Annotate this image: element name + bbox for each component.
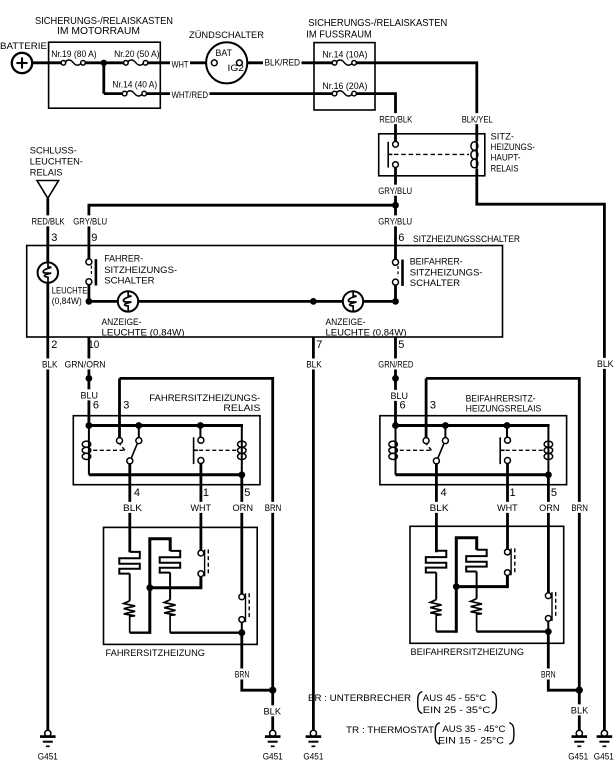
svg-text:WHT: WHT (191, 502, 212, 513)
svg-text:BLK: BLK (123, 502, 143, 513)
svg-text:LEUCHTE (0,84W): LEUCHTE (0,84W) (326, 327, 407, 338)
wire ER to node X (H1 FAHRERSITZHEIZUNG) (150, 577, 201, 588)
svg-text:IG2: IG2 (228, 63, 245, 73)
wire GRY/BLU bus to driver switch pin 9 (89, 205, 396, 259)
wire BRN passenger heater to ground node (548, 632, 579, 691)
svg-text:BEIFAHRER-: BEIFAHRER- (410, 256, 463, 267)
ignition switch S1 ZUENDSCHALTER (206, 42, 247, 83)
svg-text:4: 4 (441, 487, 447, 499)
svg-text:BEIFAHRERSITZHEIZUNG: BEIFAHRERSITZHEIZUNG (411, 647, 525, 658)
relay K3 BEIFAHRERSITZ-HEIZUNGSRELAIS coil 2 (547, 426, 549, 475)
relay K1 actuation dashed link (394, 153, 469, 155)
junction TR/BRN node (H2 BEIFAHRERSITZHEIZUNG) (545, 628, 552, 635)
relay K3 BEIFAHRERSITZ-HEIZUNGSRELAIS switch 2 (506, 426, 508, 438)
svg-text:RELAIS: RELAIS (491, 164, 519, 175)
wire main relay coil to right BLK ground run (477, 169, 605, 730)
passenger indicator bulb ANZEIGE-LEUCHTE (0,84W) (343, 291, 363, 311)
svg-text:RED/BLK: RED/BLK (379, 113, 413, 124)
junction pin 7 node (310, 298, 317, 305)
wire label BLU (passenger) (389, 390, 410, 401)
svg-text:LEUCHTE (0,84W): LEUCHTE (0,84W) (102, 327, 185, 338)
switch box SITZHEIZUNGSSCHALTER (27, 246, 503, 338)
svg-text:IM MOTORRAUM: IM MOTORRAUM (57, 26, 140, 37)
relay K2 FAHRERSITZHEIZUNGS-RELAIS bottom rail (89, 473, 242, 476)
junction node X (H1 FAHRERSITZHEIZUNG) (146, 584, 153, 591)
wire element2 bottom rail (H2 BEIFAHRERSITZHEIZUNG) (477, 630, 549, 632)
svg-text:ORN: ORN (539, 502, 560, 513)
wire K2 FAHRERSITZHEIZUNGS-RELAIS switch2 to pin 1 (199, 464, 202, 551)
relay K1 contact (387, 142, 389, 168)
svg-text:Nr.14 (40 A): Nr.14 (40 A) (112, 79, 157, 89)
svg-text:BAT: BAT (216, 48, 233, 58)
svg-text:HEIZUNGS-: HEIZUNGS- (491, 142, 535, 153)
svg-text:(0,84W): (0,84W) (52, 296, 82, 306)
wire label ORN (passenger pin5) (538, 502, 562, 513)
wire label BRN (driver) (263, 502, 283, 513)
relay K3 BEIFAHRERSITZ-HEIZUNGSRELAIS changeover switch (444, 427, 446, 438)
wire fuse20 out to ignition BAT terminal (148, 61, 212, 64)
svg-text:3: 3 (51, 232, 57, 244)
svg-text:6: 6 (93, 400, 99, 412)
junction K3 BEIFAHRERSITZ-HEIZUNGSRELAIS rail/switch2 (504, 422, 511, 429)
svg-text:BATTERIE: BATTERIE (0, 41, 47, 52)
fuse F20 Nr.20 (50 A) (128, 60, 144, 65)
node X feed (H1 FAHRERSITZHEIZUNG) (150, 539, 170, 634)
svg-text:BLK: BLK (306, 359, 322, 370)
svg-text:GRN/RED: GRN/RED (378, 359, 413, 370)
ground G451 (main relay BLK) (603, 730, 606, 731)
relay K3 BEIFAHRERSITZ-HEIZUNGSRELAIS coil 1 (395, 427, 397, 475)
svg-text:SCHALTER: SCHALTER (410, 278, 460, 289)
svg-text:BLK/RED: BLK/RED (265, 57, 301, 68)
svg-text:BRN: BRN (571, 502, 588, 513)
wire label GRY/BLU (below node) (377, 215, 414, 226)
svg-text:Nr.14 (10A): Nr.14 (10A) (322, 49, 367, 59)
junction driver BRN/BLK ground node (269, 687, 276, 694)
wire K3 BEIFAHRERSITZ-HEIZUNGSRELAIS pivot to pin 4 (435, 464, 438, 552)
svg-text:3: 3 (430, 400, 436, 412)
relay box K3 BEIFAHRERSITZ-HEIZUNGSRELAIS (380, 416, 567, 485)
svg-text:GRY/BLU: GRY/BLU (73, 216, 107, 227)
svg-text:AUS 35 - 45°C: AUS 35 - 45°C (442, 724, 505, 735)
junction node X (H2 BEIFAHRERSITZHEIZUNG) (453, 583, 460, 590)
svg-text:SITZHEIZUNGS-: SITZHEIZUNGS- (104, 265, 177, 276)
junction pin 5 node (392, 298, 399, 305)
wire pin3 to illumination bulb (46, 246, 49, 338)
relay K2 FAHRERSITZHEIZUNGS-RELAIS switch 2 (199, 426, 201, 438)
svg-text:ER : UNTERBRECHER: ER : UNTERBRECHER (308, 693, 411, 704)
svg-text:WHT/RED: WHT/RED (172, 89, 209, 100)
junction GRY/BLU node (392, 202, 399, 209)
svg-text:FAHRER-: FAHRER- (104, 254, 143, 265)
svg-text:RELAIS: RELAIS (223, 403, 260, 414)
junction pin 10 node (86, 298, 93, 305)
wire label BLK/YEL (460, 113, 494, 124)
wire BLK/YEL fuse14-10A out to main relay coil (356, 63, 477, 141)
svg-text:TR : THERMOSTAT: TR : THERMOSTAT (346, 725, 434, 736)
svg-text:SITZ-: SITZ- (491, 132, 515, 143)
junction K2 FAHRERSITZHEIZUNGS-RELAIS bottom rail/pin5 (238, 471, 245, 478)
wire element2 bottom rail (H1 FAHRERSITZHEIZUNG) (170, 632, 242, 634)
resistor thermistor 1 (H2 BEIFAHRERSITZHEIZUNG) (435, 573, 437, 600)
fuse F16 Nr.16 (20A) (336, 91, 352, 96)
svg-text:G451: G451 (263, 752, 283, 762)
svg-text:ANZEIGE-: ANZEIGE- (102, 317, 142, 328)
wire label GRY/BLU (left) (72, 215, 109, 226)
driver indicator bulb ANZEIGE-LEUCHTE (0,84W) (118, 291, 138, 311)
wire GRN/RED-BLU pin5 to passenger relay pin6 (394, 337, 397, 426)
wire BLK/RED ignition IG2 to footwell fuse14-10A (242, 61, 332, 64)
wire RED/BLK tail light relay to switch pin 3 (46, 198, 49, 245)
svg-text:SCHLUSS-: SCHLUSS- (30, 145, 77, 156)
svg-text:EIN 15 - 25°C: EIN 15 - 25°C (438, 736, 504, 747)
wire label RED/BLK (378, 113, 414, 124)
wire element1 bottom rail (H2 BEIFAHRERSITZHEIZUNG) (436, 630, 456, 632)
relay K3 BEIFAHRERSITZ-HEIZUNGSRELAIS top rail (396, 424, 550, 427)
svg-text:6: 6 (400, 400, 406, 412)
svg-text:FAHRERSITZHEIZUNG: FAHRERSITZHEIZUNG (106, 648, 206, 659)
fuse F19 Nr.19 (80 A) (65, 60, 81, 65)
heating element 2 (H1 FAHRERSITZHEIZUNG) (160, 551, 181, 573)
ground G451 (pin7) (312, 730, 315, 731)
svg-text:G451: G451 (38, 752, 58, 762)
svg-text:ANZEIGE-: ANZEIGE- (326, 317, 366, 328)
svg-text:2: 2 (51, 339, 57, 351)
ground G451 (passenger BRN) (578, 730, 581, 731)
svg-text:5: 5 (244, 487, 250, 499)
wire label WHT (driver pin1) (189, 502, 213, 513)
wire BLU/pin3 riser driver relay (118, 378, 121, 437)
svg-text:SITZHEIZUNGSSCHALTER: SITZHEIZUNGSSCHALTER (413, 234, 520, 245)
thermostat switch TR (H1 FAHRERSITZHEIZUNG) (239, 594, 245, 600)
wire label ORN (driver pin5) (231, 502, 255, 513)
svg-text:GRY/BLU: GRY/BLU (378, 216, 412, 227)
breaker switch ER (H1 FAHRERSITZHEIZUNG) (198, 550, 204, 556)
wire label BLK (passenger pin4) (428, 502, 450, 513)
svg-text:G451: G451 (568, 752, 588, 762)
wire K3 BEIFAHRERSITZ-HEIZUNGSRELAIS switch2 to pin 1 (506, 464, 509, 551)
wire BLK driver ground node to G451 (271, 690, 274, 731)
relay box K2 FAHRERSITZHEIZUNGS-RELAIS (73, 416, 260, 485)
svg-text:BLK: BLK (597, 358, 614, 369)
driver seat heater switch S2 FAHRER-SITZHEIZUNGS-SCHALTER (86, 259, 92, 265)
wire GRY/BLU main relay contact down to switch pin 6 (394, 168, 397, 246)
heating element 1 (H2 BEIFAHRERSITZHEIZUNG) (426, 551, 447, 573)
connector junction driver BLU (86, 375, 93, 382)
junction K3 BEIFAHRERSITZ-HEIZUNGSRELAIS bottom rail/pin5 (545, 471, 552, 478)
wire label GRY/BLU (above node) (377, 185, 414, 196)
fuse/relay box engine compartment SICHERUNGS-/RELAISKASTEN IM MOTORRAUM (49, 42, 161, 108)
junction K2 FAHRERSITZHEIZUNGS-RELAIS rail/coil1 (86, 422, 93, 429)
wire label WHT/RED (170, 89, 210, 100)
wire label BLK (pin2) (41, 358, 60, 369)
wire label BRN (passenger heater) (540, 668, 558, 679)
battery B1 BATTERIE (12, 53, 32, 73)
node X feed (H2 BEIFAHRERSITZHEIZUNG) (456, 538, 476, 633)
heating element 1 (H1 FAHRERSITZHEIZUNG) (119, 552, 140, 574)
svg-text:9: 9 (91, 232, 97, 244)
fuse/relay box footwell SICHERUNGS-/RELAISKASTEN IM FUSSRAUM (314, 43, 375, 110)
breaker switch ER (H2 BEIFAHRERSITZHEIZUNG) (505, 549, 511, 555)
junction K2 FAHRERSITZHEIZUNGS-RELAIS rail/switch2 (197, 422, 204, 429)
junction node fuse19/fuse20/fuse14 tap (101, 60, 107, 66)
svg-text:3: 3 (123, 400, 129, 412)
svg-text:SCHALTER: SCHALTER (104, 275, 154, 286)
heater box H1 FAHRERSITZHEIZUNG (104, 527, 258, 644)
wire label GRN/ORN (63, 358, 107, 369)
label (0,84W) (50, 295, 83, 305)
wire label BLK (driver pin4) (122, 502, 144, 513)
wire BLK passenger ground node to G451 (578, 690, 581, 731)
svg-text:1: 1 (510, 487, 516, 499)
svg-text:Nr.20 (50 A): Nr.20 (50 A) (114, 49, 159, 59)
svg-text:LEUCHTEN-: LEUCHTEN- (30, 156, 83, 167)
svg-text:GRN/ORN: GRN/ORN (65, 359, 106, 370)
wire label BLK (pin7) (305, 358, 324, 369)
svg-text:BRN: BRN (265, 502, 282, 513)
svg-text:Nr.19 (80 A): Nr.19 (80 A) (51, 49, 96, 59)
wire ER to node X (H2 BEIFAHRERSITZHEIZUNG) (456, 576, 507, 587)
ground G451 (pin2) (46, 730, 49, 731)
wire K2 FAHRERSITZHEIZUNGS-RELAIS pin 5 ORN to thermostat (240, 475, 243, 594)
relay K1 SITZ-HEIZUNGS-HAUPT-RELAIS box (379, 134, 485, 176)
svg-text:ZÜNDSCHALTER: ZÜNDSCHALTER (189, 30, 264, 41)
wire BLK pin2 to ground G451 (46, 337, 49, 730)
heating element 2 (H2 BEIFAHRERSITZHEIZUNG) (466, 550, 487, 572)
svg-text:BLK: BLK (430, 502, 450, 513)
svg-text:WHT: WHT (172, 58, 189, 69)
wire K2 FAHRERSITZHEIZUNGS-RELAIS pivot to pin 4 (128, 464, 131, 552)
connector junction passenger BLU (392, 375, 399, 382)
svg-text:Nr.16 (20A): Nr.16 (20A) (322, 81, 367, 91)
wire label BLK (driver ground) (262, 705, 283, 716)
legend bracket close ER (492, 692, 497, 714)
svg-text:BLK: BLK (571, 705, 589, 716)
relay K2 FAHRERSITZHEIZUNGS-RELAIS top rail (89, 424, 243, 427)
wire label GRN/RED (377, 358, 415, 369)
junction passenger BRN/BLK ground node (576, 687, 583, 694)
svg-text:AUS 45 - 55°C: AUS 45 - 55°C (423, 693, 486, 704)
junction K3 BEIFAHRERSITZ-HEIZUNGSRELAIS rail/contact (442, 422, 449, 429)
svg-text:GRY/BLU: GRY/BLU (378, 185, 412, 196)
wire BRN driver heater to ground node (242, 633, 273, 691)
wire passenger pin3 run to BRN drop (426, 378, 579, 690)
wire WHT/RED fuse14-40A out to fuse16 footwell (146, 92, 332, 95)
svg-text:EIN 25 - 35°C: EIN 25 - 35°C (423, 705, 490, 716)
svg-text:BLK: BLK (42, 359, 58, 370)
wire BLK pin7 to ground G451 (312, 337, 315, 730)
wire tap down to fuse14-40A (102, 63, 105, 94)
wire label BRN (driver heater) (233, 668, 251, 679)
indicator bus wire in switch box (89, 300, 396, 303)
connector arrow from tail light relay (37, 181, 59, 199)
wire label RED/BLK (left) (30, 215, 66, 226)
svg-text:1: 1 (203, 487, 209, 499)
wire label BLU (driver) (79, 389, 100, 400)
svg-text:RELAIS: RELAIS (30, 168, 63, 179)
svg-text:ORN: ORN (233, 502, 254, 513)
svg-text:G451: G451 (303, 752, 323, 762)
svg-text:SICHERUNGS-/RELAISKASTEN: SICHERUNGS-/RELAISKASTEN (308, 18, 447, 29)
legend bracket open TR (435, 723, 440, 745)
wire RED/BLK fuse16 out to main relay contact (356, 94, 395, 142)
legend bracket close TR (509, 723, 514, 745)
resistor thermistor 2 (H1 FAHRERSITZHEIZUNG) (169, 573, 171, 600)
svg-text:IM FUSSRAUM: IM FUSSRAUM (306, 29, 372, 40)
resistor thermistor 2 (H2 BEIFAHRERSITZHEIZUNG) (476, 572, 478, 599)
relay K2 FAHRERSITZHEIZUNGS-RELAIS coil 2 (241, 426, 243, 475)
svg-text:BLK: BLK (264, 706, 282, 717)
fuse F14-40 Nr.14 (40 A) (127, 91, 143, 96)
wire K3 BEIFAHRERSITZ-HEIZUNGSRELAIS pin 5 ORN to thermostat (547, 475, 550, 594)
svg-text:G451: G451 (594, 752, 614, 762)
svg-text:HEIZUNGSRELAIS: HEIZUNGSRELAIS (466, 404, 542, 415)
ground G451 (driver BRN) (271, 730, 274, 731)
wire fuse19 to fuse20 with tap (86, 61, 124, 64)
label LEUCHTE (50, 285, 89, 295)
thermostat switch TR (H2 BEIFAHRERSITZHEIZUNG) (545, 593, 551, 599)
relay K3 BEIFAHRERSITZ-HEIZUNGSRELAIS bottom rail (396, 473, 549, 476)
svg-text:BRN: BRN (541, 669, 556, 680)
svg-text:SITZHEIZUNGS-: SITZHEIZUNGS- (410, 267, 483, 278)
wire element1 bottom rail (H1 FAHRERSITZHEIZUNG) (130, 632, 150, 634)
svg-text:BRN: BRN (235, 669, 250, 680)
svg-text:BLK/YEL: BLK/YEL (462, 113, 493, 124)
wire label BLK/RED (263, 56, 302, 67)
junction K2 FAHRERSITZHEIZUNGS-RELAIS rail/contact (135, 422, 142, 429)
wire driver pin3 run to BRN drop (120, 378, 273, 690)
relay K2 FAHRERSITZHEIZUNGS-RELAIS coil 1 (88, 427, 90, 475)
svg-text:LEUCHTE: LEUCHTE (52, 286, 88, 296)
svg-text:7: 7 (316, 339, 322, 351)
resistor thermistor 1 (H1 FAHRERSITZHEIZUNG) (129, 574, 131, 601)
wire label BLK (far right) (596, 358, 615, 369)
wire GRN/ORN-BLU pin10 to driver relay pin6 (88, 337, 91, 426)
svg-text:HAUPT-: HAUPT- (491, 153, 521, 164)
wire label BRN (passenger) (570, 502, 590, 513)
svg-text:6: 6 (398, 232, 404, 244)
svg-text:WHT: WHT (497, 502, 518, 513)
passenger seat heater switch S3 BEIFAHRER-SITZHEIZUNGS-SCHALTER (394, 246, 397, 260)
fuse F14-10 Nr.14 (10A) (336, 60, 352, 65)
heater box H2 BEIFAHRERSITZHEIZUNG (410, 526, 564, 643)
relay K2 FAHRERSITZHEIZUNGS-RELAIS changeover switch (138, 427, 140, 438)
wire battery to fuse box row (WHT) (32, 61, 61, 64)
junction K3 BEIFAHRERSITZ-HEIZUNGSRELAIS rail/coil1 (392, 422, 399, 429)
wire label BLK (passenger ground) (569, 704, 590, 715)
svg-text:RED/BLK: RED/BLK (32, 216, 66, 227)
relay K1 coil (476, 141, 478, 169)
illumination bulb LEUCHTE (0,84W) (38, 262, 58, 282)
svg-text:5: 5 (398, 339, 404, 351)
wire BLU/pin3 riser passenger relay (425, 378, 428, 437)
legend bracket open ER (418, 692, 423, 714)
svg-text:5: 5 (551, 487, 557, 499)
svg-text:4: 4 (134, 487, 140, 499)
wire label WHT (170, 58, 190, 69)
wire label WHT (passenger pin1) (496, 502, 519, 513)
junction TR/BRN node (H1 FAHRERSITZHEIZUNG) (238, 629, 245, 636)
